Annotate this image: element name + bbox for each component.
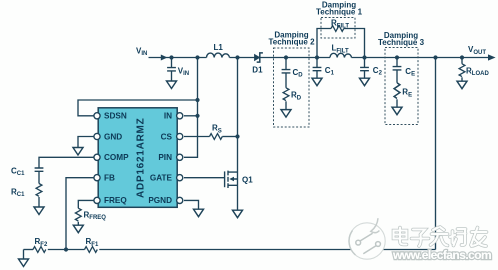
svg-text:RD: RD xyxy=(291,91,302,102)
svg-text:CE: CE xyxy=(405,67,415,78)
svg-text:CC1: CC1 xyxy=(11,166,25,177)
svg-text:PGND: PGND xyxy=(148,196,172,205)
svg-text:COMP: COMP xyxy=(104,153,129,162)
svg-text:RF2: RF2 xyxy=(35,237,48,248)
svg-text:www.elecfans.com: www.elecfans.com xyxy=(392,248,491,262)
svg-text:GND: GND xyxy=(104,132,122,141)
svg-text:FREQ: FREQ xyxy=(104,196,127,205)
svg-text:FB: FB xyxy=(104,174,115,183)
svg-text:IN: IN xyxy=(164,112,172,121)
svg-text:C2: C2 xyxy=(373,66,383,77)
svg-text:D1: D1 xyxy=(252,66,263,75)
svg-text:Q1: Q1 xyxy=(242,175,253,184)
svg-text:RF1: RF1 xyxy=(86,237,99,248)
svg-text:RC1: RC1 xyxy=(11,187,25,198)
svg-text:SDSN: SDSN xyxy=(104,112,127,121)
svg-text:RFREQ: RFREQ xyxy=(84,210,107,221)
svg-text:Technique 2: Technique 2 xyxy=(268,37,315,46)
svg-text:VIN: VIN xyxy=(178,66,189,77)
svg-text:Technique 3: Technique 3 xyxy=(378,38,425,47)
svg-text:C1: C1 xyxy=(325,66,335,77)
svg-text:RLOAD: RLOAD xyxy=(466,66,489,77)
svg-text:PIN: PIN xyxy=(158,153,172,162)
svg-text:RS: RS xyxy=(212,124,222,135)
svg-text:GATE: GATE xyxy=(150,174,173,183)
svg-text:ADP1621ARMZ: ADP1621ARMZ xyxy=(135,118,146,199)
svg-text:L1: L1 xyxy=(214,43,224,52)
svg-text:RE: RE xyxy=(402,88,412,99)
svg-text:CS: CS xyxy=(161,132,173,141)
svg-text:VOUT: VOUT xyxy=(468,45,486,56)
svg-text:CD: CD xyxy=(293,68,304,79)
svg-text:VIN: VIN xyxy=(136,46,147,57)
svg-text:Technique 1: Technique 1 xyxy=(316,7,363,16)
